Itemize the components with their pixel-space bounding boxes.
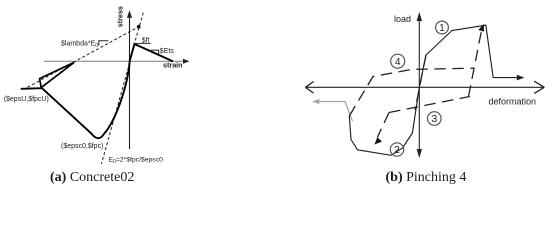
strain axis (horizontal, gray): [44, 59, 190, 64]
dashed line E0 initial tangent (tension), through origin to above peak: [130, 11, 144, 61]
dashed steep drop to negative envelope: [377, 113, 389, 138]
load axis (vertical, arrows both ends): [417, 12, 422, 158]
svg-text:(b) Pinching 4: (b) Pinching 4: [386, 170, 467, 185]
gray residual branch with arrow: [312, 99, 352, 121]
svg-text:(a) Concrete02: (a) Concrete02: [50, 170, 134, 185]
dashed line E0 initial tangent (compression): [101, 62, 129, 164]
svg-text:($epsU,$fpcU): ($epsU,$fpcU): [4, 96, 49, 103]
concrete envelope: flat residual branch: [21, 87, 42, 90]
svg-text:E0=2*$fpc/$epsc0: E0=2*$fpc/$epsc0: [109, 156, 164, 165]
unload/reload loop (triangle): [40, 62, 75, 87]
arrowhead at bottom of steep drop: [375, 137, 383, 144]
slope indicator for lambda*Ec: [99, 41, 109, 46]
svg-text:$ft: $ft: [142, 38, 150, 45]
slope indicator for $Ets: [151, 50, 159, 54]
$ft leader line under label: [135, 42, 151, 44]
svg-text:stress: stress: [116, 6, 125, 27]
svg-text:1: 1: [439, 23, 445, 34]
svg-text:4: 4: [395, 57, 401, 68]
svg-text:2: 2: [394, 145, 400, 156]
circled 4: [391, 54, 405, 68]
positive envelope: [419, 25, 519, 87]
svg-text:load: load: [394, 14, 411, 24]
concrete envelope: compression softening + parabola + tension branch: [42, 44, 173, 138]
svg-text:3: 3: [431, 114, 437, 125]
svg-text:$Ets: $Ets: [160, 48, 175, 55]
dashed steep rise to positive envelope peak: [469, 32, 482, 97]
dashed lower pinch line (circle 3 below it): [389, 97, 470, 113]
svg-text:deformation: deformation: [489, 96, 537, 106]
dashed unload from positive envelope through origin: [415, 55, 426, 110]
arrowhead at end of positive envelope: [517, 75, 525, 81]
svg-text:($epsc0,$fpc): ($epsc0,$fpc): [61, 143, 103, 150]
deformation axis (horizontal): [305, 81, 544, 93]
svg-text:$lambda*E0: $lambda*E0: [61, 40, 98, 49]
circled 2: [390, 143, 403, 156]
stress axis (vertical): [127, 10, 132, 149]
dashed line lambda*Ec (unloading slope) from flat branch to dot: [28, 27, 139, 88]
circled 1: [436, 21, 449, 34]
dot at intersection of dashed lines: [137, 25, 141, 29]
dashed reload path (negative corner up to upper pinch line, circle 4 above it): [349, 68, 474, 116]
negative envelope: [349, 87, 419, 155]
arrowhead at top of steep rise: [478, 24, 484, 32]
svg-text:strain: strain: [163, 61, 183, 70]
circled 3: [428, 112, 442, 126]
